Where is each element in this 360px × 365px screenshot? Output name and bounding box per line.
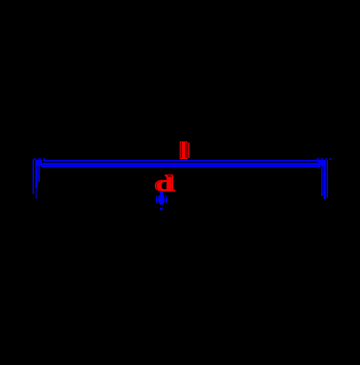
- svg-text:d: d: [155, 172, 174, 195]
